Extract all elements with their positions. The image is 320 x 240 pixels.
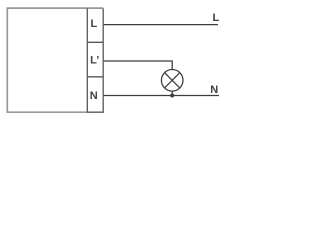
svg-text:N: N [90,90,98,102]
svg-text:L: L [91,18,98,30]
svg-text:N: N [210,84,218,96]
svg-text:L: L [213,12,220,24]
svg-text:L’: L’ [90,55,99,67]
